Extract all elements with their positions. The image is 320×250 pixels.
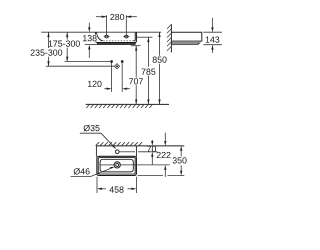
view 2: wall line [170, 24, 172, 52]
bowl inner curve left [96, 32, 102, 40]
tap hole [115, 150, 119, 154]
view 3: basin outer outline [97, 156, 136, 175]
label Ø35 with leader [80, 133, 116, 148]
drain centerline [100, 164, 170, 166]
view 2 wall hatching [167, 24, 171, 50]
dimension 235-300 [46, 32, 115, 66]
supply pipe stub left [111, 62, 113, 92]
deck side edge right [135, 146, 137, 157]
fixing hole right [123, 35, 129, 38]
view 3 wall hatching [96, 142, 143, 146]
dimension 350 [180, 150, 182, 171]
view 2: basin profile rectangle [171, 32, 201, 41]
bowl inner line right [134, 32, 136, 40]
fixing hole left [104, 35, 110, 38]
dimension 138 [85, 23, 98, 58]
label Ø46 with leader [71, 167, 114, 176]
floor hatching [86, 105, 152, 108]
drain outlet diamond [114, 64, 119, 69]
view 3: basin inner outline [98, 158, 135, 174]
view 3: wall line [96, 145, 184, 147]
dimension 175-300 [65, 32, 112, 61]
dimension 850 [159, 32, 161, 104]
dimension 143 [203, 18, 222, 53]
hidden drain dashed line [100, 40, 134, 42]
floor line [86, 103, 169, 105]
view 2: basin lip [171, 43, 199, 44]
dimension 785 [137, 37, 153, 104]
tap hole center extension line [119, 151, 135, 153]
basin bottom extension line [138, 175, 185, 177]
washbasin front profile outline [96, 32, 137, 42]
dimension 222 [164, 133, 166, 177]
basin apron band [97, 43, 135, 45]
dimension 70 [151, 140, 153, 165]
view 1: rim reference line [41, 31, 161, 33]
deck side edge left [95, 146, 97, 157]
dimension 707 [131, 46, 141, 105]
dimension 458 [97, 177, 136, 193]
drain ring [114, 162, 120, 168]
supply pipe stub right [121, 62, 123, 92]
dimension 120 [104, 88, 130, 90]
dimension 280 [96, 15, 137, 35]
view 3: bowl outline [100, 159, 133, 172]
